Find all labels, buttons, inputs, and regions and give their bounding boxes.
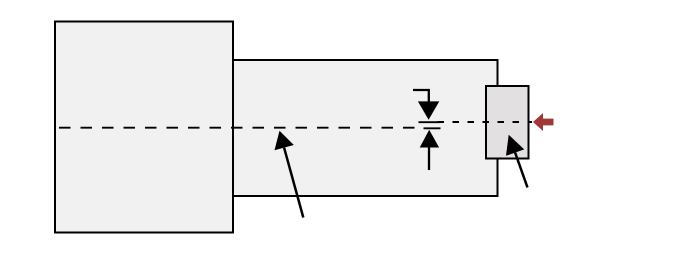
- pointer arrow to shaft axis: [275, 131, 304, 218]
- bottom dimension tail: [428, 147, 430, 170]
- shaft body: [233, 60, 498, 196]
- end collar (offset piece): [486, 86, 529, 159]
- top dimension arrowhead (down): [418, 101, 439, 119]
- large block (headstock): [55, 22, 233, 233]
- pointer arrow to collar: [506, 135, 528, 188]
- shaft centerline (dashed, left axis): [59, 127, 416, 129]
- red force arrow (pointing left): [533, 113, 554, 131]
- bottom dimension arrowhead (up): [420, 130, 439, 148]
- upper axis solid segment: [419, 121, 441, 123]
- top dimension leader (bent): [413, 90, 429, 102]
- lower axis solid segment: [424, 127, 441, 129]
- collar centerline (dashed, right axis): [438, 121, 533, 123]
